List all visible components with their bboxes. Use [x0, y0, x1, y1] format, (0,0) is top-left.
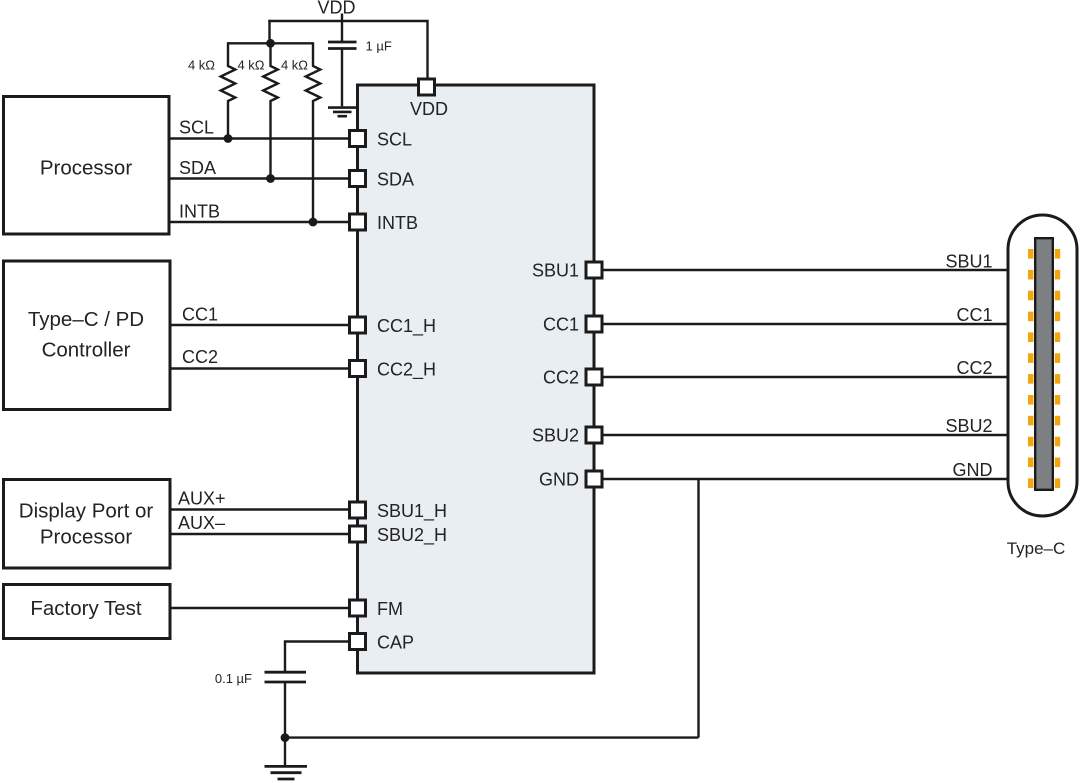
svg-text:GND: GND	[539, 470, 579, 490]
svg-text:INTB: INTB	[179, 202, 220, 222]
pin FM	[350, 600, 366, 616]
pin CC1	[586, 316, 602, 332]
wire CC2 (right)	[602, 376, 1008, 378]
svg-text:Processor: Processor	[40, 526, 132, 549]
svg-text:CC2_H: CC2_H	[377, 360, 436, 381]
pin SBU2_H	[350, 526, 366, 542]
svg-text:CAP: CAP	[377, 633, 414, 653]
wire GND bottom run	[285, 736, 699, 738]
svg-text:1 µF: 1 µF	[366, 39, 392, 54]
svg-text:INTB: INTB	[377, 213, 418, 233]
svg-text:VDD: VDD	[410, 99, 448, 119]
pin VDD	[419, 79, 435, 95]
svg-text:SCL: SCL	[179, 118, 214, 138]
wire rail left drop	[268, 20, 270, 44]
pin GND	[586, 471, 602, 487]
pin CAP	[350, 634, 366, 650]
svg-text:Type–C: Type–C	[1007, 539, 1066, 558]
svg-text:SCL: SCL	[377, 130, 412, 150]
pin SBU1	[586, 262, 602, 278]
wire CC1	[170, 324, 350, 326]
wire AUX-	[170, 533, 350, 535]
svg-text:CC1_H: CC1_H	[377, 316, 436, 337]
Processor box	[4, 97, 170, 235]
svg-text:SDA: SDA	[179, 158, 216, 178]
wire GND branch from pin	[697, 479, 699, 738]
junction dot SDA/R2	[266, 174, 275, 183]
pin CC2_H	[350, 361, 366, 377]
wire CC1 (right)	[602, 323, 1008, 325]
wire VDD rail to VDD pin	[426, 20, 428, 78]
junction dot pull-up bus	[266, 39, 275, 48]
capacitor C1 1 µF	[341, 21, 343, 41]
svg-text:SBU1: SBU1	[945, 252, 992, 272]
svg-text:Processor: Processor	[40, 157, 132, 180]
Type-C / PD Controller box	[4, 261, 171, 410]
Factory Test box	[4, 585, 171, 639]
wire SDA	[169, 177, 350, 179]
resistor R2 4 kΩ	[263, 42, 278, 178]
wire SCL	[169, 137, 350, 139]
svg-text:SBU1: SBU1	[532, 261, 579, 281]
wire INTB	[169, 221, 350, 223]
svg-text:4 kΩ: 4 kΩ	[188, 58, 215, 73]
svg-text:4 kΩ: 4 kΩ	[237, 58, 264, 73]
ground (bottom)	[284, 738, 286, 766]
wire GND (right)	[602, 478, 1008, 480]
wire CC2	[170, 367, 350, 369]
svg-text:SBU1_H: SBU1_H	[377, 501, 447, 522]
wire SBU2 (right)	[602, 434, 1008, 436]
pin SDA	[350, 171, 366, 187]
wire AUX+	[170, 508, 350, 510]
svg-text:SBU2: SBU2	[945, 416, 992, 436]
Type-C receptacle outline	[1008, 215, 1077, 516]
junction dot GND net	[281, 733, 290, 742]
svg-text:CC2: CC2	[956, 358, 992, 378]
svg-text:Controller: Controller	[42, 339, 131, 362]
wire FM	[170, 607, 350, 609]
svg-text:CC2: CC2	[543, 368, 579, 388]
svg-text:Display Port or: Display Port or	[19, 500, 154, 523]
resistor R1 4 kΩ	[221, 42, 236, 138]
svg-text:CC2: CC2	[182, 347, 218, 367]
svg-text:VDD: VDD	[317, 0, 355, 18]
svg-text:AUX–: AUX–	[178, 513, 225, 533]
Type-C contacts (orange, right column)	[1055, 249, 1060, 488]
svg-text:Factory Test: Factory Test	[30, 597, 142, 620]
wire SBU1 (right)	[602, 269, 1008, 271]
pin INTB	[350, 214, 366, 230]
svg-text:0.1 µF: 0.1 µF	[215, 671, 252, 686]
svg-text:FM: FM	[377, 599, 403, 619]
wire resistor top bus	[228, 42, 314, 44]
pin SBU1_H	[350, 502, 366, 518]
wire VDD stub	[341, 14, 343, 22]
svg-text:CC1: CC1	[956, 305, 992, 325]
wire CAP to C2	[285, 642, 350, 672]
pin CC1_H	[350, 317, 366, 333]
Type-C tongue (gray)	[1035, 238, 1053, 490]
svg-text:SBU2_H: SBU2_H	[377, 525, 447, 546]
svg-text:4 kΩ: 4 kΩ	[281, 58, 308, 73]
pin SBU2	[586, 427, 602, 443]
ground (top, C1)	[328, 106, 357, 109]
svg-text:CC1: CC1	[543, 315, 579, 335]
junction dot SCL/R1	[224, 134, 233, 143]
Type-C contacts (orange, left column)	[1028, 249, 1033, 488]
Display Port or Processor box	[4, 480, 171, 569]
wire VDD rail	[268, 20, 427, 22]
junction dot INTB/R3	[309, 218, 318, 227]
capacitor C2 0.1 µF	[265, 671, 307, 674]
svg-text:SBU2: SBU2	[532, 426, 579, 446]
IC U1 body	[358, 85, 595, 673]
svg-text:GND: GND	[953, 460, 993, 480]
svg-text:SDA: SDA	[377, 170, 414, 190]
pin CC2	[586, 369, 602, 385]
pin SCL	[350, 131, 366, 147]
svg-text:AUX+: AUX+	[178, 489, 226, 509]
svg-text:Type–C / PD: Type–C / PD	[28, 308, 144, 331]
svg-text:CC1: CC1	[182, 305, 218, 325]
resistor R3 4 kΩ	[306, 42, 321, 222]
